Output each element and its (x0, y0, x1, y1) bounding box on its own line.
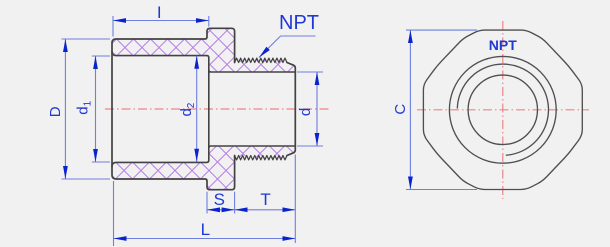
svg-text:L: L (201, 220, 210, 239)
svg-text:S: S (214, 190, 225, 209)
svg-text:I: I (157, 3, 162, 22)
svg-text:NPT: NPT (489, 37, 517, 53)
svg-text:T: T (260, 190, 270, 209)
svg-text:D: D (47, 106, 64, 117)
svg-text:NPT: NPT (279, 12, 319, 34)
svg-text:d: d (297, 108, 314, 116)
svg-text:C: C (392, 104, 409, 115)
